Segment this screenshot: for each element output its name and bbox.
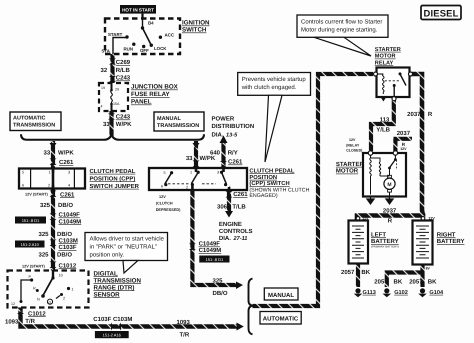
svg-text:4: 4 [101,105,103,109]
svg-text:C103F C103M: C103F C103M [93,316,132,323]
svg-text:1093: 1093 [177,319,191,326]
svg-text:DISTRIBUTION: DISTRIBUTION [212,123,255,130]
svg-text:G: G [49,301,52,305]
svg-text:12V (START): 12V (START) [22,265,45,269]
svg-text:RUN: RUN [124,47,134,52]
svg-text:DIESEL: DIESEL [423,7,458,18]
svg-text:DEPRESSED): DEPRESSED) [156,208,181,212]
svg-text:2: 2 [48,184,50,188]
svg-text:LOCK: LOCK [154,46,167,51]
svg-text:AUTOMATIC: AUTOMATIC [13,116,46,122]
svg-text:N: N [37,298,40,302]
svg-text:1: 1 [72,288,74,292]
svg-text:C261: C261 [233,191,248,198]
svg-text:2: 2 [63,297,65,301]
svg-text:CLUTCH PEDAL: CLUTCH PEDAL [90,168,136,175]
svg-text:C103M: C103M [59,237,78,244]
svg-text:MANUAL: MANUAL [157,116,181,122]
svg-text:R: R [33,287,36,291]
svg-text:1: 1 [190,171,192,175]
svg-text:C1049F: C1049F [199,241,221,248]
svg-text:C261: C261 [59,159,74,166]
svg-text:MOTOR: MOTOR [375,54,396,60]
svg-text:C269: C269 [116,59,131,66]
svg-text:SWITCH JUMPER: SWITCH JUMPER [90,183,140,190]
svg-text:Allows driver to start vehicle: Allows driver to start vehicle [90,235,165,242]
svg-text:B4: B4 [148,21,154,26]
svg-text:DIA.: DIA. [219,235,231,242]
svg-text:TRANSMISSION: TRANSMISSION [94,277,142,284]
svg-text:IGNITION: IGNITION [182,20,210,27]
svg-text:AUTOMATIC: AUTOMATIC [263,316,299,323]
svg-text:MANUAL: MANUAL [268,292,294,299]
svg-text:C261: C261 [228,159,243,166]
svg-text:151-.8 D1: 151-.8 D1 [22,218,40,223]
svg-text:27-11: 27-11 [233,236,248,242]
svg-text:2037: 2037 [383,207,397,214]
svg-text:33: 33 [103,121,110,128]
svg-text:BK: BK [394,279,403,286]
svg-text:C103F: C103F [59,244,77,251]
svg-text:33: 33 [186,155,193,162]
svg-text:3: 3 [217,171,219,175]
svg-text:DB/O: DB/O [213,290,228,297]
svg-text:T/LB: T/LB [232,203,246,210]
svg-text:G104: G104 [429,290,444,296]
svg-text:1: 1 [49,171,51,175]
svg-text:C261: C261 [60,191,75,198]
svg-text:12V (START): 12V (START) [25,193,48,197]
svg-text:1093: 1093 [5,318,19,325]
svg-text:306: 306 [217,203,228,210]
svg-text:PANEL: PANEL [131,99,152,106]
svg-text:in "PARK" or "NEUTRAL": in "PARK" or "NEUTRAL" [90,243,157,250]
svg-text:CONTROLS: CONTROLS [219,228,253,235]
svg-text:POWER: POWER [212,116,235,123]
svg-text:HOT IN START: HOT IN START [122,8,154,13]
svg-text:STA: STA [102,49,111,54]
svg-text:OFF: OFF [140,48,149,53]
svg-text:325: 325 [39,252,50,259]
svg-text:R: R [428,111,433,118]
svg-text:6: 6 [22,184,24,188]
svg-text:R/LB: R/LB [116,67,131,74]
svg-text:33: 33 [44,150,51,157]
svg-text:5: 5 [22,171,24,175]
svg-text:2057: 2057 [374,279,388,286]
svg-text:R: R [388,218,393,225]
svg-text:640: 640 [210,149,221,156]
svg-text:151-2 A10: 151-2 A10 [21,242,40,247]
svg-text:W/PK: W/PK [116,121,132,128]
svg-text:C243: C243 [116,114,131,121]
svg-text:325: 325 [39,231,50,238]
svg-text:DIGITAL: DIGITAL [94,270,119,277]
svg-text:13-5: 13-5 [226,133,238,139]
svg-text:CLUTCH PEDAL: CLUTCH PEDAL [249,167,295,174]
svg-text:DB/O: DB/O [57,231,72,238]
svg-text:STARTER: STARTER [336,161,365,168]
svg-text:12V: 12V [400,147,407,151]
svg-text:SENSOR: SENSOR [94,291,121,298]
svg-text:113: 113 [380,116,390,123]
svg-text:STARTER: STARTER [375,47,401,53]
svg-text:M: M [387,182,391,188]
svg-text:(PRIMARY BATTERY): (PRIMARY BATTERY) [371,244,399,248]
svg-text:C1012: C1012 [28,310,46,317]
svg-text:Prevents vehicle startup: Prevents vehicle startup [242,76,307,83]
svg-text:12: 12 [11,302,15,306]
svg-text:POSITION: POSITION [249,174,277,181]
svg-text:G113: G113 [363,290,376,296]
svg-text:8V: 8V [426,266,431,270]
svg-text:DB/O: DB/O [57,252,72,259]
svg-text:Controls current flow to Start: Controls current flow to Starter [301,18,382,25]
svg-text:BK: BK [361,269,370,276]
svg-text:BATTERY: BATTERY [437,238,465,245]
svg-text:C1049M: C1049M [199,247,222,254]
svg-text:W/PK: W/PK [58,150,74,157]
svg-text:Motor during engine starting.: Motor during engine starting. [301,26,378,33]
svg-text:32: 32 [101,67,108,74]
svg-text:12V: 12V [159,195,166,199]
svg-text:position only.: position only. [90,251,125,258]
svg-text:3: 3 [68,171,70,175]
svg-text:2037: 2037 [397,130,411,137]
svg-text:T/R: T/R [25,318,35,325]
svg-text:(RELAY: (RELAY [346,143,360,147]
svg-text:DB/O: DB/O [58,202,73,209]
svg-text:C1049F: C1049F [59,212,81,219]
svg-text:RELAY: RELAY [375,60,394,66]
svg-text:151-.8 D1: 151-.8 D1 [206,257,224,262]
svg-text:RIGHT: RIGHT [437,231,456,238]
svg-text:C243: C243 [116,75,131,82]
svg-text:BK: BK [428,279,437,286]
svg-text:ENGAGED): ENGAGED) [249,193,277,199]
svg-text:2057: 2057 [341,269,355,276]
svg-text:10: 10 [59,274,63,278]
svg-text:19: 19 [101,86,105,90]
svg-text:ACC: ACC [165,33,175,38]
svg-text:FUSE RELAY: FUSE RELAY [131,91,170,98]
svg-text:RANGE (DTR): RANGE (DTR) [94,284,135,291]
svg-text:MOTOR: MOTOR [336,168,359,175]
svg-text:TRANSMISSION: TRANSMISSION [157,123,199,129]
svg-text:2: 2 [186,186,188,190]
svg-text:2037: 2037 [407,111,421,118]
svg-text:JUNCTION BOX: JUNCTION BOX [131,84,179,91]
svg-text:(CLUTCH: (CLUTCH [156,202,173,206]
svg-text:2057: 2057 [409,279,423,286]
svg-text:START: START [108,32,123,37]
svg-text:CLOSED): CLOSED) [346,148,363,152]
svg-text:C1012: C1012 [59,262,77,269]
svg-text:(CPP) SWITCH: (CPP) SWITCH [249,180,289,187]
svg-text:TRANSMISSION: TRANSMISSION [13,123,55,129]
svg-text:12V: 12V [349,138,356,142]
svg-text:ENGINE: ENGINE [219,221,242,228]
svg-text:6: 6 [161,185,163,189]
svg-text:Y/LB: Y/LB [376,127,390,134]
svg-text:C1049M: C1049M [59,218,82,225]
svg-text:29: 29 [115,88,119,92]
svg-text:R/Y: R/Y [228,149,238,156]
svg-text:325: 325 [213,277,224,284]
svg-text:SWITCH: SWITCH [182,27,207,34]
svg-text:DIA.: DIA. [212,132,224,139]
svg-text:4: 4 [68,184,70,188]
svg-text:15A: 15A [113,102,120,106]
svg-text:LEFT: LEFT [371,231,386,238]
svg-text:5: 5 [164,171,166,175]
svg-text:151-2 A16: 151-2 A16 [103,332,122,337]
svg-text:G102: G102 [394,290,408,296]
svg-text:325: 325 [40,202,51,209]
svg-text:T/R: T/R [180,331,190,338]
svg-text:POSITION (CPP): POSITION (CPP) [90,175,136,182]
svg-text:with clutch engaged.: with clutch engaged. [241,84,297,91]
